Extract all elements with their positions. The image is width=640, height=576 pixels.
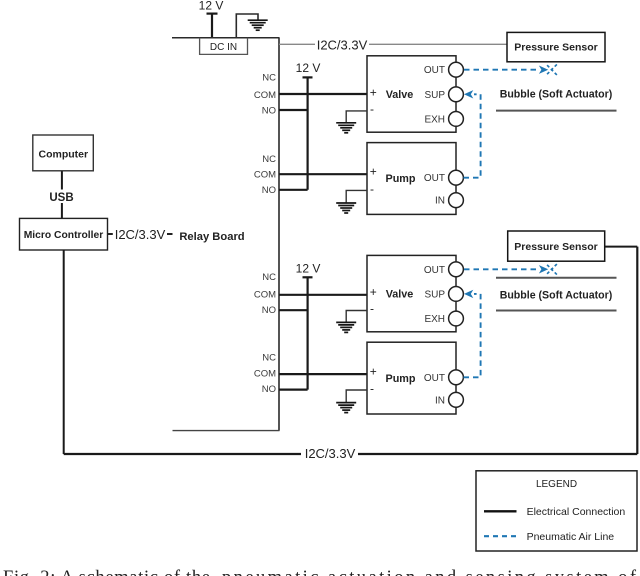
pump 2 port IN xyxy=(449,392,464,407)
svg-text:NO: NO xyxy=(262,105,276,116)
svg-text:LEGEND: LEGEND xyxy=(536,479,577,490)
legend box xyxy=(476,471,637,551)
wire COM4 to pump2 + xyxy=(279,373,367,375)
svg-text:NO: NO xyxy=(262,305,276,316)
pump 1 port OUT xyxy=(449,170,464,185)
svg-text:NC: NC xyxy=(262,154,276,165)
valve 2 port OUT xyxy=(449,262,464,277)
valve 2 ground wire xyxy=(346,311,367,322)
svg-text:pneumatic actuation and sensin: pneumatic actuation and sensing system o… xyxy=(222,568,637,576)
svg-text:Pump: Pump xyxy=(386,173,416,185)
I2C/3.3V wire to Pressure Sensor 1 xyxy=(279,43,507,45)
valve 1 port SUP xyxy=(449,87,464,102)
svg-text:Pressure Sensor: Pressure Sensor xyxy=(514,42,597,54)
pneumatic arrow into bubble 1 xyxy=(539,66,548,74)
svg-text:Valve: Valve xyxy=(386,89,414,101)
pressure sensor 2 box xyxy=(508,231,605,261)
pneumatic line valve1 OUT to bubble 1 xyxy=(464,69,537,71)
USB wire xyxy=(61,171,63,218)
valve 2 port EXH xyxy=(449,311,464,326)
svg-text:SUP: SUP xyxy=(424,90,445,101)
wire NO3 to 12V rail 2 xyxy=(279,309,308,311)
12V rail 1 terminal bar and vertical wire xyxy=(303,77,313,189)
svg-text:EXH: EXH xyxy=(424,314,445,325)
bubble 2 bottom membrane line xyxy=(496,310,617,312)
svg-text:Electrical Connection: Electrical Connection xyxy=(527,506,626,518)
ground (pump 1) xyxy=(336,203,356,213)
bubble 2 inlet cross xyxy=(547,263,558,276)
svg-text:COM: COM xyxy=(254,289,276,300)
svg-text:OUT: OUT xyxy=(424,373,445,384)
pump 2 box xyxy=(367,342,456,414)
ground (top, DC supply) xyxy=(248,20,268,30)
figure caption (clipped at page bottom) xyxy=(3,568,637,576)
valve 1 ground wire xyxy=(346,111,367,122)
wire to top ground xyxy=(236,14,258,38)
bottom I2C/3.3V bus wire xyxy=(64,453,638,455)
svg-text:+: + xyxy=(370,165,377,179)
USB label xyxy=(47,190,76,204)
svg-text:I2C/3.3V: I2C/3.3V xyxy=(317,38,368,53)
wire pressure sensor 2 to right bus xyxy=(605,246,638,248)
svg-text:IN: IN xyxy=(435,395,445,406)
svg-text:NC: NC xyxy=(262,272,276,283)
svg-text:-: - xyxy=(370,102,374,116)
svg-text:IN: IN xyxy=(435,196,445,207)
svg-text:Pump: Pump xyxy=(386,373,416,385)
svg-text:COM: COM xyxy=(254,90,276,101)
svg-text:COM: COM xyxy=(254,170,276,181)
valve 2 port SUP xyxy=(449,287,464,302)
svg-text:NC: NC xyxy=(262,73,276,84)
svg-text:OUT: OUT xyxy=(424,65,445,76)
pneumatic arrow into valve2 SUP xyxy=(464,290,473,298)
ground (pump 2) xyxy=(336,403,356,413)
svg-text:EXH: EXH xyxy=(424,114,445,125)
svg-text:Computer: Computer xyxy=(39,149,89,161)
svg-text:I2C/3.3V: I2C/3.3V xyxy=(305,446,356,461)
pneumatic line pump2 OUT to valve2 SUP xyxy=(464,294,481,377)
svg-text:Valve: Valve xyxy=(386,289,414,301)
wire NO2 to 12V rail 1 xyxy=(279,189,308,191)
12V rail 2 terminal bar and vertical wire xyxy=(303,277,313,389)
pump 1 ground wire xyxy=(346,190,367,202)
pneumatic line pump1 OUT to valve1 SUP xyxy=(464,94,481,177)
svg-text:Bubble (Soft Actuator): Bubble (Soft Actuator) xyxy=(500,88,613,100)
svg-text:12 V: 12 V xyxy=(199,0,224,13)
relay board bottom edge xyxy=(173,430,280,432)
relay board right edge xyxy=(278,38,280,431)
svg-text:NO: NO xyxy=(262,384,276,395)
wire NO4 to 12V rail 2 xyxy=(279,389,308,391)
svg-text:DC IN: DC IN xyxy=(210,42,237,53)
pump 2 port OUT xyxy=(449,370,464,385)
wire COM1 to valve1 + xyxy=(279,93,367,95)
pump 2 ground wire xyxy=(346,390,367,402)
valve 2 box xyxy=(367,255,456,331)
bottom I2C/3.3V net label xyxy=(301,446,358,461)
bubble 1 inlet cross xyxy=(547,63,558,76)
right bus vertical wire xyxy=(636,247,638,454)
svg-text:-: - xyxy=(370,381,374,395)
pneumatic line valve2 OUT to bubble 2 xyxy=(464,268,537,270)
ground (valve 2) xyxy=(336,322,356,332)
svg-text:I2C/3.3V: I2C/3.3V xyxy=(115,227,166,242)
bubble 1 membrane line xyxy=(496,110,617,112)
svg-text:SUP: SUP xyxy=(424,289,445,300)
svg-text:+: + xyxy=(370,285,377,299)
svg-text:Fig. 2: A schematic of the: Fig. 2: A schematic of the xyxy=(3,568,210,576)
relay board top edge xyxy=(172,37,280,39)
valve 1 port OUT xyxy=(449,62,464,77)
svg-text:Relay Board: Relay Board xyxy=(179,231,244,243)
svg-text:NO: NO xyxy=(262,185,276,196)
legend electrical connection sample line xyxy=(484,510,517,512)
micro controller down wire xyxy=(63,250,65,454)
I2C/3.3V link right dash xyxy=(167,233,173,235)
valve 1 box xyxy=(367,56,456,132)
12V supply terminal bar and stub wire (top) xyxy=(207,14,218,38)
svg-text:-: - xyxy=(370,182,374,196)
ground (valve 1) xyxy=(336,123,356,133)
svg-text:USB: USB xyxy=(49,192,73,204)
valve 1 port EXH xyxy=(449,112,464,127)
wire COM3 to valve2 + xyxy=(279,294,367,296)
wire COM2 to pump1 + xyxy=(279,173,367,175)
legend pneumatic air line sample xyxy=(484,535,517,537)
bubble 2 top membrane line xyxy=(496,277,617,279)
svg-text:Pressure Sensor: Pressure Sensor xyxy=(514,241,597,253)
pressure sensor 1 box xyxy=(507,32,605,61)
svg-text:+: + xyxy=(370,364,377,378)
DC IN connector box xyxy=(200,38,248,55)
wire NO1 to 12V rail 1 xyxy=(279,109,308,111)
svg-text:OUT: OUT xyxy=(424,173,445,184)
svg-text:COM: COM xyxy=(254,369,276,380)
pump 1 box xyxy=(367,143,456,215)
svg-text:NC: NC xyxy=(262,353,276,364)
svg-text:12 V: 12 V xyxy=(296,262,321,276)
I2C/3.3V net label (top) xyxy=(315,38,369,53)
svg-text:12 V: 12 V xyxy=(296,61,321,75)
svg-text:-: - xyxy=(370,302,374,316)
micro controller box xyxy=(20,218,108,250)
12V supply label (top) xyxy=(199,0,224,13)
pneumatic arrow into valve1 SUP xyxy=(464,90,473,98)
pump 1 port IN xyxy=(449,193,464,208)
svg-text:Micro Controller: Micro Controller xyxy=(24,230,104,241)
computer box xyxy=(33,135,94,171)
I2C/3.3V link left dash xyxy=(108,233,113,235)
pneumatic arrow into bubble 2 xyxy=(539,265,548,273)
svg-text:Pneumatic Air Line: Pneumatic Air Line xyxy=(527,531,615,543)
svg-text:Bubble (Soft Actuator): Bubble (Soft Actuator) xyxy=(500,290,613,302)
svg-text:OUT: OUT xyxy=(424,265,445,276)
svg-text:+: + xyxy=(370,85,377,99)
